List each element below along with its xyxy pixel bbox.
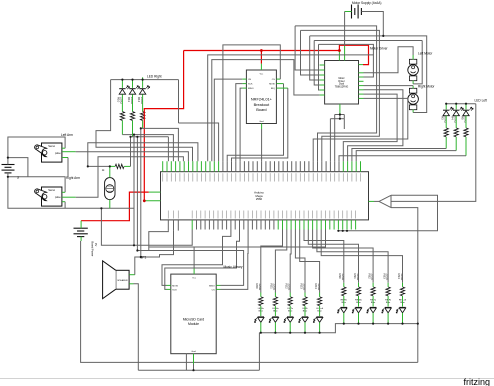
svg-text:9V: 9V [94,243,98,246]
svg-text:SCK: SCK [172,289,177,291]
svg-text:220Ω: 220Ω [341,274,345,281]
svg-text:NRF24L01+: NRF24L01+ [251,97,273,102]
svg-text:100Ω: 100Ω [454,116,458,123]
svg-text:2560: 2560 [256,197,263,201]
svg-text:MISO: MISO [248,88,254,90]
svg-text:CE: CE [248,79,252,81]
svg-text:CS: CS [272,79,276,81]
svg-text:CS: CS [212,289,216,291]
svg-text:IRQ: IRQ [271,88,275,90]
svg-text:MOSI: MOSI [172,285,178,287]
svg-text:Breakout: Breakout [254,102,270,107]
svg-text:Right Arm: Right Arm [66,176,80,180]
svg-text:100Ω: 100Ω [463,116,467,123]
svg-text:TB6612FNG: TB6612FNG [335,85,349,88]
svg-text:fritzing: fritzing [464,377,491,386]
svg-text:Left Arm: Left Arm [61,133,73,137]
svg-text:220Ω: 220Ω [273,284,277,291]
svg-text:SCK: SCK [248,84,253,86]
svg-text:LED Right: LED Right [147,75,162,79]
svg-text:220Ω: 220Ω [385,274,389,281]
svg-text:220Ω: 220Ω [317,284,321,291]
svg-text:Right Motor: Right Motor [418,84,435,88]
svg-text:220Ω: 220Ω [400,274,404,281]
svg-text:220Ω: 220Ω [258,284,262,291]
svg-text:220Ω: 220Ω [370,274,374,281]
svg-text:220Ω: 220Ω [130,97,134,104]
svg-text:MicroSD Card: MicroSD Card [183,318,204,322]
svg-text:Left Motor: Left Motor [418,52,433,56]
svg-text:Motor Supply (4xAA): Motor Supply (4xAA) [352,1,381,5]
svg-text:Module: Module [188,322,199,326]
svg-text:220Ω: 220Ω [140,97,144,104]
svg-text:100Ω: 100Ω [444,116,448,123]
svg-text:Motor Driver: Motor Driver [370,46,388,50]
svg-text:220Ω: 220Ω [356,274,360,281]
svg-text:MISO: MISO [209,285,215,287]
svg-text:SP1: SP1 [140,255,146,259]
svg-text:MOSI: MOSI [269,84,275,86]
svg-text:Board: Board [256,107,266,112]
svg-text:SPEAKER: SPEAKER [117,279,128,282]
svg-text:Music Library: Music Library [224,265,243,269]
svg-text:LED Left: LED Left [475,99,488,103]
svg-text:220Ω: 220Ω [288,284,292,291]
svg-text:220Ω: 220Ω [302,284,306,291]
svg-text:220Ω: 220Ω [120,97,124,104]
